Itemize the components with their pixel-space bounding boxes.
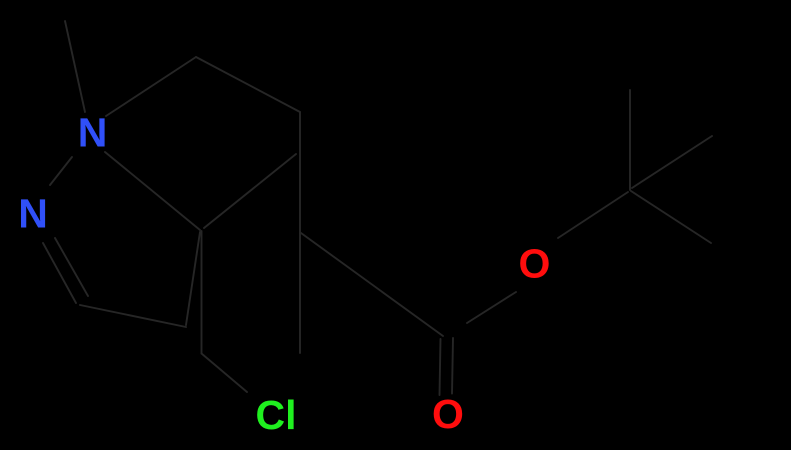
wire N2=C3 twin [55, 238, 88, 296]
svg-text:Cl: Cl [256, 392, 297, 438]
wire C3a-A [186, 232, 200, 325]
wire ring-esterC [301, 233, 443, 336]
wire tBu-up [629, 90, 631, 190]
wire apex-N1 [106, 57, 196, 116]
wire N1-N2 [50, 157, 72, 185]
wire A-vertical [201, 231, 203, 354]
wire N2=C3 main [43, 243, 76, 303]
wire apex-right [196, 57, 300, 112]
wire esterC-Oester [467, 292, 516, 323]
wire V2-Cl [202, 354, 248, 393]
wire vertical-right-lower [299, 233, 301, 353]
wire N1-A [105, 152, 200, 230]
wire C=O line1 [440, 339, 441, 395]
svg-text:N: N [78, 110, 108, 156]
svg-text:N: N [18, 191, 48, 237]
wire tBu-rup [632, 136, 712, 188]
wire C3-C3a [80, 305, 186, 327]
wire Oester-tBuC [558, 192, 628, 238]
wire methyl-N1 [65, 21, 85, 112]
wire vertical-right [299, 112, 301, 233]
wire C=O line2 [452, 338, 453, 394]
svg-text:O: O [519, 241, 551, 287]
wire A-B diag [204, 154, 296, 228]
svg-text:O: O [432, 391, 464, 437]
wire tBu-rdown [631, 191, 711, 243]
